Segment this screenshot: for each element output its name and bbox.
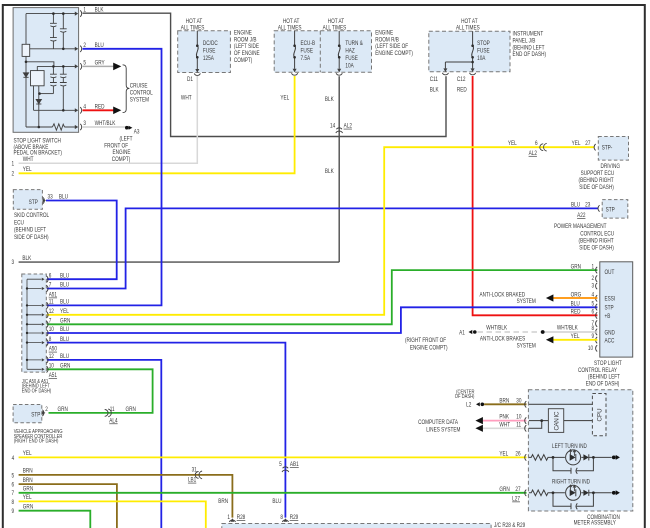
connector L2 (arrow + dot) <box>476 402 480 406</box>
svg-text:(LEFT SIDE OF: (LEFT SIDE OF <box>375 44 408 51</box>
relay pin names <box>605 269 616 344</box>
svg-text:SUPPORT ECU: SUPPORT ECU <box>581 170 615 177</box>
svg-text:L27: L27 <box>512 496 520 503</box>
svg-text:SYSTEM: SYSTEM <box>517 343 536 350</box>
svg-text:33: 33 <box>48 194 53 201</box>
node A1 caption <box>405 338 448 352</box>
node A3 caption <box>104 136 133 164</box>
svg-text:LINES SYSTEM: LINES SYSTEM <box>426 427 460 434</box>
svg-text:ACC: ACC <box>605 338 615 345</box>
svg-text:OF ENGINE: OF ENGINE <box>234 50 260 57</box>
svg-text:STP: STP <box>606 207 615 214</box>
instrument panel J/B box <box>429 31 510 72</box>
IC CPU (box) <box>592 394 606 436</box>
svg-text:CPU: CPU <box>597 408 604 421</box>
svg-text:A22: A22 <box>577 212 585 219</box>
right turn diode <box>583 490 588 496</box>
svg-text:YEL: YEL <box>23 167 32 174</box>
svg-text:1: 1 <box>592 264 595 271</box>
svg-text:27: 27 <box>515 486 520 493</box>
stop light switch contact block (lower) <box>31 71 45 86</box>
svg-text:6: 6 <box>49 273 52 280</box>
svg-text:RIGHT TURN IND: RIGHT TURN IND <box>552 479 590 486</box>
svg-text:SKID CONTROL: SKID CONTROL <box>14 213 49 220</box>
svg-text:ENGINE: ENGINE <box>375 30 393 37</box>
svg-text:BLU: BLU <box>272 499 281 506</box>
svg-text:YEL: YEL <box>280 95 289 102</box>
wire BLU net: skid control pin33 to J/C A51 pin6 <box>46 201 117 280</box>
svg-text:DC/DC: DC/DC <box>203 41 218 48</box>
svg-text:ENGINE COMPT): ENGINE COMPT) <box>375 50 413 57</box>
svg-text:11: 11 <box>49 299 54 306</box>
svg-text:7: 7 <box>49 282 52 289</box>
svg-text:GRN: GRN <box>58 406 68 413</box>
svg-text:RED: RED <box>571 309 581 316</box>
svg-text:BLU: BLU <box>60 273 69 280</box>
driving support ECU caption <box>579 163 621 191</box>
stop light switch junction dots <box>25 12 65 128</box>
svg-text:26: 26 <box>515 451 520 458</box>
skid control ECU U2 (box) <box>13 190 42 210</box>
svg-text:STP: STP <box>29 199 38 206</box>
svg-text:ALL TIMES: ALL TIMES <box>456 25 480 32</box>
svg-text:9: 9 <box>11 508 14 515</box>
svg-text:AL2: AL2 <box>344 123 352 130</box>
wire BLU net: J/C pin7 to power management ECU pin23 <box>47 208 599 288</box>
svg-text:3: 3 <box>592 283 595 290</box>
driving support ECU U4 (box) <box>598 137 628 161</box>
row 5 BRN net: to J/C R28 pin1 (via LB1) <box>19 475 233 518</box>
node L2 caption <box>455 389 475 409</box>
svg-text:2: 2 <box>45 406 48 413</box>
svg-text:METER ASSEMBLY: METER ASSEMBLY <box>574 520 616 527</box>
engine room J/B box <box>178 31 231 73</box>
svg-text:ENGINE: ENGINE <box>234 30 252 37</box>
svg-text:3: 3 <box>11 259 14 266</box>
svg-text:LEFT TURN IND: LEFT TURN IND <box>552 444 587 451</box>
fuse STOP 10A <box>445 31 473 68</box>
junction dot on WHT/BLK <box>541 330 545 334</box>
svg-text:FUSE: FUSE <box>301 48 314 55</box>
net HOT AT ALL TIMES (ECU-B) <box>278 18 302 32</box>
connector 6 AL2 on YEL wire <box>540 143 547 151</box>
svg-text:GRN: GRN <box>23 486 33 493</box>
svg-text:ENGINE COMPT): ENGINE COMPT) <box>410 345 448 352</box>
wire GRN net: J/C pin7 to relay pin1 OUT <box>47 270 598 324</box>
cruise control system label <box>130 83 153 104</box>
J/C A50 & A51 caption <box>22 378 52 394</box>
svg-text:ESSI: ESSI <box>605 296 616 303</box>
svg-text:6: 6 <box>535 140 538 147</box>
wire YEL net: relay pin9 to anti-lock brakes system <box>553 339 597 341</box>
svg-text:YEL: YEL <box>508 140 517 147</box>
svg-text:SYSTEM: SYSTEM <box>130 97 149 104</box>
fuse ECU-B 7.5A <box>294 31 296 69</box>
svg-text:1: 1 <box>227 514 230 521</box>
svg-text:BLK: BLK <box>430 87 439 94</box>
svg-text:10: 10 <box>516 414 521 421</box>
net HOT AT ALL TIMES (STOP) <box>456 18 480 32</box>
svg-text:BRN: BRN <box>23 477 33 484</box>
svg-text:SIDE OF DASH): SIDE OF DASH) <box>14 234 49 241</box>
svg-text:COMPUTER DATA: COMPUTER DATA <box>418 419 458 426</box>
svg-text:(RIGHT END OF DASH): (RIGHT END OF DASH) <box>14 438 59 445</box>
svg-text:AL4: AL4 <box>109 418 118 425</box>
svg-text:10: 10 <box>49 363 54 370</box>
stop light switch pin number / wire color labels <box>83 7 115 127</box>
connector 1 R28 <box>230 518 234 522</box>
vehicle approaching speaker controller U3 (box) <box>13 405 42 423</box>
svg-text:ALL TIMES: ALL TIMES <box>181 25 205 32</box>
svg-text:STP: STP <box>605 305 614 312</box>
instrument panel J/B caption <box>513 31 547 59</box>
svg-text:A51: A51 <box>49 292 57 299</box>
svg-text:30: 30 <box>516 398 521 405</box>
svg-text:END OF DASH): END OF DASH) <box>22 388 52 395</box>
vehicle approaching controller caption <box>14 429 63 445</box>
row 8 YEL net: down off-page <box>19 501 206 528</box>
left turn LED lamp <box>566 450 581 465</box>
svg-text:GRN: GRN <box>60 318 70 325</box>
wire BLU net: J/C pin10 to relay pin5 STP <box>47 307 598 333</box>
svg-text:1: 1 <box>11 161 14 168</box>
svg-text:WHT/BLK: WHT/BLK <box>486 325 507 332</box>
J/C pin arrows and connector arcs <box>42 278 45 371</box>
wire WHT/BLK pin3 to A3 <box>83 126 127 128</box>
svg-text:5: 5 <box>279 462 282 469</box>
engine room R/B box <box>274 31 371 73</box>
skid control ECU caption <box>14 213 49 242</box>
stop light switch capacitors C (plates) <box>50 23 67 86</box>
svg-text:(BEHIND RIGHT: (BEHIND RIGHT <box>579 238 615 245</box>
svg-text:27: 27 <box>585 140 590 147</box>
svg-text:BRN: BRN <box>23 468 33 475</box>
svg-text:(BEHIND RIGHT: (BEHIND RIGHT <box>579 177 615 184</box>
svg-text:YEL: YEL <box>23 495 32 502</box>
svg-text:12: 12 <box>49 308 54 315</box>
svg-text:7.5A: 7.5A <box>301 55 311 62</box>
svg-text:WHT: WHT <box>181 95 192 102</box>
svg-text:14: 14 <box>330 123 336 130</box>
wire BLU net: J/C pin8 to J/C R29 pin8 (via AB1) <box>47 343 286 518</box>
svg-text:BRN: BRN <box>218 499 228 506</box>
svg-text:PANEL J/B: PANEL J/B <box>513 38 536 45</box>
left turn junction dots and output <box>552 456 555 459</box>
svg-text:125A: 125A <box>203 55 214 62</box>
svg-text:23: 23 <box>585 202 590 209</box>
svg-text:BLK: BLK <box>325 168 334 175</box>
svg-text:POWER MANAGEMENT: POWER MANAGEMENT <box>554 224 607 231</box>
J/C internal bus <box>27 279 42 369</box>
cruise control brace <box>123 65 130 113</box>
connector A1 (arrow + dot) <box>469 330 473 334</box>
svg-text:(LEFT SIDE: (LEFT SIDE <box>234 44 259 51</box>
svg-text:GRN: GRN <box>126 406 136 413</box>
connector 14 AL2 on BLK wire <box>336 128 343 133</box>
connector 5 AB1 on BLU vertical <box>282 467 289 472</box>
net HOT AT ALL TIMES (TURN&HAZ) <box>323 18 347 32</box>
svg-text:BLU: BLU <box>571 301 580 308</box>
connector 8 R29 <box>283 518 287 522</box>
svg-text:BRN: BRN <box>499 398 509 405</box>
wire WHT net: computer data lines to pin11 <box>483 427 527 429</box>
svg-text:END OF DASH): END OF DASH) <box>513 52 547 59</box>
svg-text:GRN: GRN <box>60 363 70 370</box>
svg-text:(RIGHT FRONT OF: (RIGHT FRONT OF <box>405 338 447 345</box>
svg-text:YEL: YEL <box>572 140 581 147</box>
wire WHT/BLK net: A1 to relay pin8 GND <box>478 331 543 333</box>
stop light control relay U6 (box) <box>600 262 633 357</box>
svg-text:C12: C12 <box>457 77 466 84</box>
skid control ECU pin 33 connector <box>43 197 45 203</box>
svg-text:6: 6 <box>592 309 595 316</box>
svg-text:8: 8 <box>49 336 52 343</box>
stop light switch caption <box>14 138 63 157</box>
fuse TURN & HAZ 10A <box>338 31 340 69</box>
wire WHT net: DC/DC D1 to row 1 <box>19 76 198 163</box>
svg-text:10: 10 <box>588 345 593 352</box>
svg-text:ECU-B: ECU-B <box>301 41 316 48</box>
connector 31 LB1 on BRN wire <box>195 471 202 479</box>
svg-text:CONTROL: CONTROL <box>130 90 153 97</box>
svg-text:WHT: WHT <box>23 157 34 164</box>
right turn LED lamp <box>566 485 581 500</box>
junction connector J/C A50 & A51 (box) <box>22 274 47 372</box>
wire RED pin4 to cruise control <box>83 109 114 111</box>
wire GRN net: J/C A51 pin10 to vehicle approaching controller (via AL4) <box>47 369 153 413</box>
wire ORG net: relay pin4 to anti-lock braked system <box>553 297 597 299</box>
svg-text:R29: R29 <box>290 514 299 521</box>
svg-text:YEL: YEL <box>499 451 508 458</box>
anti-lock brakes system caption (lower) <box>480 336 536 350</box>
wire PNK net: computer data lines to pin10 <box>483 420 527 422</box>
svg-text:RED: RED <box>457 87 467 94</box>
svg-text:ECU: ECU <box>14 220 24 227</box>
wire BLU net: J/C pin12 down off-page <box>47 360 162 528</box>
combination meter pin connector arcs <box>525 401 527 496</box>
svg-text:(BEHIND LEFT: (BEHIND LEFT <box>513 45 545 52</box>
connector AL4 on GRN wire <box>105 409 112 417</box>
svg-text:YEL: YEL <box>60 308 69 315</box>
combination meter internal wires (pin30 to CPU, pin10/11 to CAN IC) <box>529 404 593 428</box>
svg-text:DRIVING: DRIVING <box>601 163 621 170</box>
svg-text:SIDE OF DASH): SIDE OF DASH) <box>579 185 614 192</box>
net HOT AT ALL TIMES (DC/DC) <box>181 18 205 32</box>
svg-text:10: 10 <box>49 327 54 334</box>
svg-text:CRUISE: CRUISE <box>130 83 148 90</box>
svg-text:11: 11 <box>110 406 115 413</box>
fuse DC/DC 125A <box>196 31 198 69</box>
svg-text:WHT/BLK: WHT/BLK <box>557 325 578 332</box>
wire BLU net: switch pin2 to J/C A51 pin11 <box>47 49 162 306</box>
svg-text:BLK: BLK <box>325 97 334 104</box>
cruise control system arrows <box>113 63 121 71</box>
svg-text:BLU: BLU <box>60 336 69 343</box>
svg-text:AL2: AL2 <box>529 150 537 157</box>
svg-text:11: 11 <box>516 422 521 429</box>
svg-text:12: 12 <box>49 353 54 360</box>
IC CAN IC (box) <box>548 409 563 433</box>
stop light control relay caption <box>578 360 622 387</box>
svg-text:(BEHIND LEFT: (BEHIND LEFT <box>14 227 46 234</box>
svg-text:ROOM R/B: ROOM R/B <box>375 37 399 44</box>
computer data lines system caption <box>418 419 460 434</box>
power management control ECU U5 (box) <box>602 200 628 219</box>
svg-text:SIDE OF DASH): SIDE OF DASH) <box>579 245 614 252</box>
engine room J/B caption <box>234 30 260 65</box>
svg-text:TURN &: TURN & <box>345 41 363 48</box>
svg-text:BLU: BLU <box>60 299 69 306</box>
svg-text:STOP: STOP <box>477 41 490 48</box>
svg-text:AB1: AB1 <box>290 462 299 469</box>
vehicle approaching controller pin 2 connector <box>42 410 44 416</box>
wire BRN net: L2 to combination meter pin30 <box>484 403 526 405</box>
svg-text:10A: 10A <box>345 63 353 70</box>
engine room R/B caption <box>375 30 413 58</box>
svg-text:C11: C11 <box>430 77 438 84</box>
svg-text:PEDAL ON BRACKET): PEDAL ON BRACKET) <box>14 150 63 157</box>
svg-text:A50: A50 <box>49 346 57 353</box>
svg-text:R28: R28 <box>237 514 246 521</box>
svg-text:HAZ: HAZ <box>345 48 355 55</box>
svg-text:2: 2 <box>11 171 14 178</box>
svg-text:CONTROL ECU: CONTROL ECU <box>580 231 614 238</box>
svg-text:GRN: GRN <box>499 486 509 493</box>
anti-lock braked system caption (upper) <box>480 292 536 306</box>
svg-text:COMPT): COMPT) <box>234 57 253 64</box>
svg-text:31: 31 <box>192 467 197 474</box>
svg-text:STP: STP <box>31 412 40 419</box>
svg-text:5: 5 <box>11 473 14 480</box>
svg-text:BLK: BLK <box>22 255 31 262</box>
combination meter assembly U7 (box) <box>528 390 632 511</box>
svg-text:8: 8 <box>280 514 283 521</box>
svg-text:END OF DASH): END OF DASH) <box>586 381 620 388</box>
svg-text:ALL TIMES: ALL TIMES <box>323 25 347 32</box>
svg-text:A3: A3 <box>134 129 140 136</box>
svg-text:ANTI-LOCK BRAKES: ANTI-LOCK BRAKES <box>480 336 525 343</box>
svg-text:BLU: BLU <box>571 202 580 209</box>
svg-text:A51: A51 <box>49 373 57 380</box>
svg-text:GND: GND <box>605 330 615 337</box>
svg-text:6: 6 <box>11 482 14 489</box>
svg-text:8: 8 <box>11 499 14 506</box>
svg-text:CAN IC: CAN IC <box>554 411 561 431</box>
stop light switch pin arrows and connector arcs <box>75 10 82 130</box>
svg-text:ANTI-LOCK BRAKED: ANTI-LOCK BRAKED <box>480 292 526 299</box>
stop light switch resistor (zigzag, pin3) <box>52 124 64 130</box>
svg-text:L2: L2 <box>466 402 471 409</box>
stop light switch S (box) <box>13 8 79 133</box>
stop light switch diode D2 <box>36 100 41 105</box>
stop light switch resistor (upper) <box>22 44 30 56</box>
svg-text:WHT: WHT <box>499 422 510 429</box>
svg-text:+B: +B <box>605 313 611 320</box>
svg-text:ORG: ORG <box>571 292 582 299</box>
svg-text:BLU: BLU <box>60 353 69 360</box>
left turn indicator circuit <box>529 455 612 474</box>
svg-text:10A: 10A <box>477 55 485 62</box>
svg-text:D1: D1 <box>187 77 193 84</box>
svg-text:FRONT OF: FRONT OF <box>104 143 128 150</box>
left turn diode <box>583 454 588 460</box>
svg-text:A1: A1 <box>459 330 465 337</box>
wire YEL net: ECU-B fuse to row 2 <box>19 76 295 173</box>
right turn junction dots and output <box>552 491 555 494</box>
svg-text:STP-: STP- <box>602 145 613 152</box>
row 9 GRN net: down off-page <box>19 511 91 528</box>
stop light switch internal circuit <box>26 14 77 127</box>
svg-text:GRN: GRN <box>571 264 581 271</box>
row 4 YEL net: to combination meter pin26 <box>19 456 527 458</box>
J/C bus junction dots <box>26 287 28 361</box>
junction connector J/C R28 & R29 (box) <box>222 524 491 528</box>
relay pin connector arcs 1-10 <box>596 267 598 352</box>
pin C11 / C12 labels <box>430 77 467 94</box>
svg-text:7: 7 <box>49 318 52 325</box>
svg-text:7: 7 <box>11 491 14 498</box>
svg-text:5: 5 <box>592 301 595 308</box>
svg-text:FUSE: FUSE <box>477 48 490 55</box>
J/C pin labels <box>49 273 71 380</box>
svg-text:BLU: BLU <box>59 194 68 201</box>
svg-text:2: 2 <box>592 276 595 283</box>
power management control ECU caption <box>554 224 614 252</box>
wire RED net: STOP fuse C12 to relay pin6 <box>473 76 598 315</box>
svg-text:YEL: YEL <box>571 334 580 341</box>
svg-text:J/C R28 & R29: J/C R28 & R29 <box>494 523 525 528</box>
row 7 GRN net: to combination meter pin27 <box>19 492 527 494</box>
svg-text:OF DASH): OF DASH) <box>455 393 475 400</box>
svg-text:YEL: YEL <box>23 451 32 458</box>
svg-text:COMPT): COMPT) <box>112 156 131 163</box>
wire YEL net: J/C pin12 to driving support ECU pin27 <box>47 147 595 315</box>
connector A3 (dot + arrow) <box>125 126 129 130</box>
svg-text:ROOM J/B: ROOM J/B <box>234 37 257 44</box>
svg-text:OUT: OUT <box>605 269 615 276</box>
right turn indicator circuit <box>529 490 612 509</box>
svg-text:ALL TIMES: ALL TIMES <box>278 25 302 32</box>
svg-text:GRN: GRN <box>23 504 33 511</box>
svg-text:BLU: BLU <box>60 327 69 334</box>
wire GRY pin5 to cruise control <box>83 65 114 67</box>
combination meter caption <box>574 515 620 527</box>
svg-text:LB1: LB1 <box>188 477 196 484</box>
relay pin numbers <box>588 264 595 353</box>
svg-text:ENGINE: ENGINE <box>113 150 131 157</box>
svg-text:PNK: PNK <box>499 414 509 421</box>
svg-text:SYSTEM: SYSTEM <box>517 299 536 306</box>
svg-text:FUSE: FUSE <box>345 55 358 62</box>
wire BLK net: switch pin1 / C11 / TURN&HAZ fuse / row 3 <box>19 13 446 262</box>
svg-text:FUSE: FUSE <box>203 48 216 55</box>
row 6 BRN net: down off-page <box>19 484 117 528</box>
stop light switch diode D1 (left rail) <box>23 73 28 78</box>
svg-text:INSTRUMENT: INSTRUMENT <box>513 31 544 38</box>
svg-text:BLU: BLU <box>60 282 69 289</box>
